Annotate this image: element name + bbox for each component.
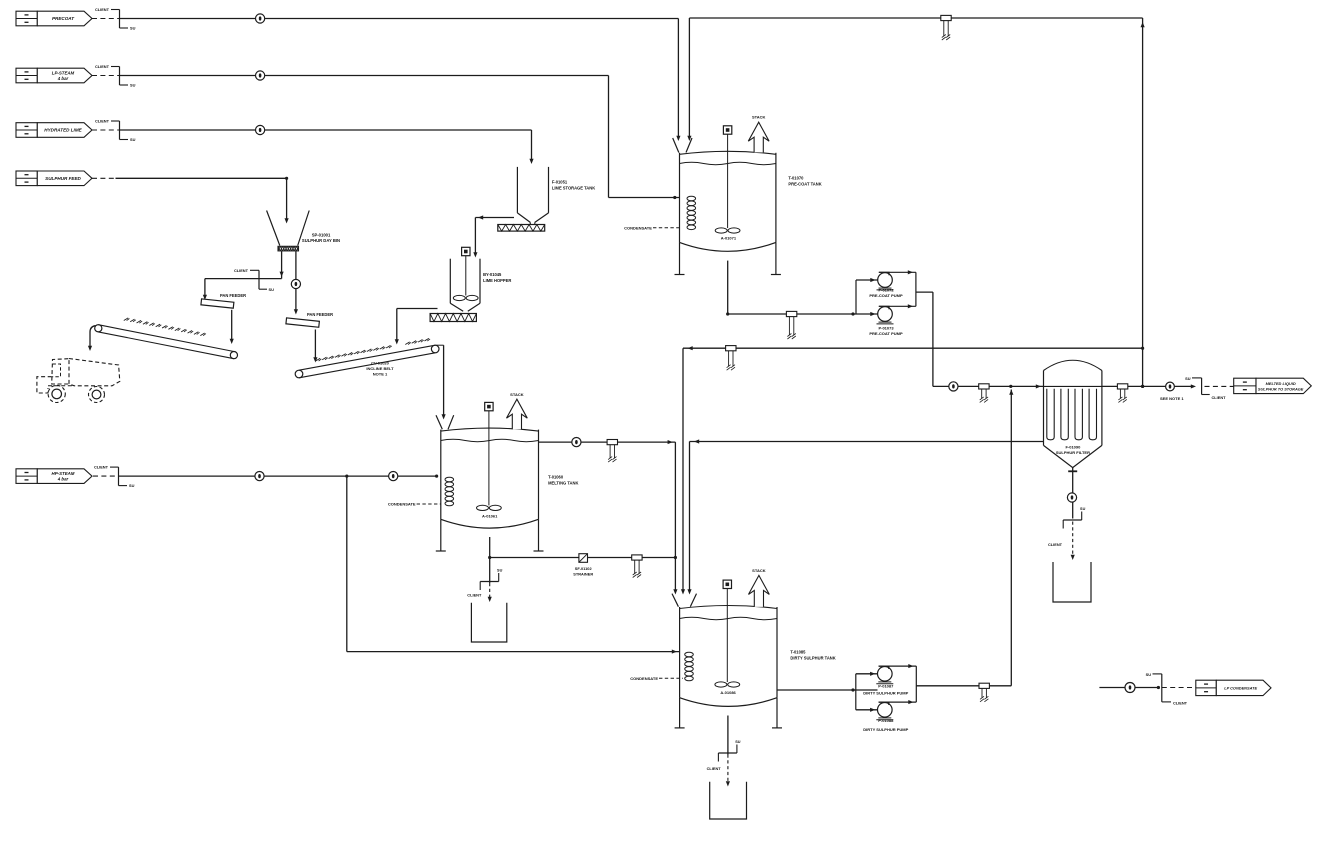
svg-text:SULPHUR TO STORAGE: SULPHUR TO STORAGE [1258,386,1304,391]
svg-text:INCLINE BELT: INCLINE BELT [366,366,394,371]
agitator motor of BY-01045 [462,247,470,295]
svg-text:STACK: STACK [510,392,524,397]
dirty pump suction header [856,672,878,712]
svg-text:LIME HOPPER: LIME HOPPER [483,278,511,283]
svg-text:HYDRATED LIME: HYDRATED LIME [44,128,82,133]
battery limit CLIENT/SU on HP-STEAM line [93,465,135,489]
svg-text:SF-01102: SF-01102 [575,566,593,571]
svg-text:DIRTY SULPHUR PUMP: DIRTY SULPHUR PUMP [863,691,908,696]
hopper BY-01045 LIME HOPPER [450,259,480,312]
valve on HP-steam line 2 [389,472,398,481]
svg-text:CLIENT: CLIENT [95,7,110,12]
battery limit CLIENT/SU on reject line [234,268,274,292]
stack vent of T-01060 [507,392,528,430]
svg-text:BY-01045: BY-01045 [483,272,502,277]
label T-01085 DIRTY SULPHUR TANK [790,650,835,661]
wire sulphur feed line to day bin SP-01001 [92,177,289,224]
label CV-01020 INCLINE BELT NOTE 1 [366,361,394,377]
svg-text:F-01090: F-01090 [1065,445,1081,450]
svg-text:SULPHUR FILTER: SULPHUR FILTER [1056,450,1090,455]
pump P-01088 DIRTY SULPHUR PUMP [863,702,908,732]
svg-text:P-01073: P-01073 [878,326,894,331]
svg-text:CLIENT: CLIENT [95,64,110,69]
pump P-01087 DIRTY SULPHUR PUMP [863,666,908,696]
agitator motor A-01071 [723,126,731,228]
valve on condensate line [1125,683,1135,693]
wire LP-steam line to T-01070 coil [120,76,680,200]
valve on LP-steam line [256,71,265,80]
drain pit of F-01090 [1053,562,1091,602]
svg-text:CONDENSATE: CONDENSATE [624,225,652,230]
wire day bin to pan feeder 1 [203,251,284,300]
svg-text:CLIENT: CLIENT [1212,395,1227,400]
label F-01090 SULPHUR FILTER [1056,445,1090,456]
wire T-01085 outlet to dirty sulphur pumps [777,688,878,691]
agitator propeller of BY-01045 [453,295,478,300]
pump P-01073 PRE-COAT PUMP [869,306,903,336]
svg-text:STACK: STACK [752,568,766,573]
svg-text:CLIENT: CLIENT [467,593,482,598]
stream flag PRECOAT (inlet) [16,11,92,26]
svg-text:4 bar: 4 bar [57,477,69,482]
svg-text:MELTED LIQUID: MELTED LIQUID [1266,381,1296,386]
svg-text:SP-01001: SP-01001 [312,233,331,238]
heating coil of T-01085 [685,652,694,681]
agitator motor A-01086 [723,580,731,682]
svg-text:STACK: STACK [752,115,766,120]
svg-text:SU: SU [497,569,503,573]
svg-text:SULPHUR DAY BIN: SULPHUR DAY BIN [302,238,340,243]
stream flag LP-STEAM 4 bar (inlet) [16,68,92,83]
svg-text:CLIENT: CLIENT [95,119,110,124]
wire HP-steam to T-01085 coil [347,476,680,654]
wire filter outlet to storage flag [1102,384,1196,388]
svg-text:STRAINER: STRAINER [573,571,593,576]
pump P-01072 PRE-COAT PUMP [869,272,903,298]
label T-01060 MELTING TANK [548,475,578,486]
battery limit SU/CLIENT on product line [1185,376,1234,400]
battery limit CLIENT/SU on HYDRATED LIME line [92,119,136,143]
pan feeder 2 [286,312,333,327]
wire recycle line to T-01085 funnel [681,346,1144,594]
hopper F-01051 LIME STORAGE TANK [517,167,548,225]
label T-01070 PRE-COAT TANK [788,176,821,187]
svg-text:SU: SU [735,740,741,744]
wire T-01060 overflow to T-01085 funnel [539,440,678,594]
svg-text:CLIENT: CLIENT [234,268,249,273]
wire conveyor 1 discharge to truck [88,326,96,351]
spool piece on dirty pump discharge [979,683,989,702]
spool piece on filter feed line [979,384,989,403]
svg-text:T-01060: T-01060 [548,475,564,480]
svg-text:4 bar: 4 bar [57,76,69,81]
wire lime doser to incline belt [395,309,438,345]
wire HP-steam line to T-01060 coil [119,475,439,478]
svg-text:A-01071: A-01071 [721,235,737,240]
wire lime feeder to lime hopper BY-01045 [473,215,514,257]
svg-text:PRE-COAT TANK: PRE-COAT TANK [788,181,821,186]
svg-text:SU: SU [1185,376,1191,381]
stack vent of T-01070 [748,115,769,153]
battery limit CLIENT/SU on LP-STEAM line [92,64,136,88]
svg-text:PRE-COAT PUMP: PRE-COAT PUMP [869,293,903,298]
svg-text:DIRTY SULPHUR TANK: DIRTY SULPHUR TANK [790,655,835,660]
drain pit of T-01060 [471,603,506,642]
svg-text:F-01051: F-01051 [552,180,568,185]
agitator propeller A-01061 [477,505,502,518]
battery limit SU/CLIENT on condensate line [1146,672,1196,705]
svg-text:CLIENT: CLIENT [94,465,109,470]
heating coil of T-01070 [687,196,696,229]
wire hydrated lime line to F-01051 [120,130,534,164]
label BY-01045 LIME HOPPER [483,272,511,283]
wire T-01070 outlet to pre-coat pumps [726,261,878,316]
conveyor CV-01010 belt [95,325,238,359]
valve SEE NOTE 1 on product line [1160,382,1184,401]
wire dirty pumps to filter feed junction [916,390,1013,686]
svg-text:SU: SU [269,287,275,292]
conveyor CV-01020 INCLINE BELT [295,345,439,378]
battery limit SU/CLIENT on filter drain [1048,507,1086,560]
spool piece on overflow line [607,440,617,463]
wire pan feeder 2 to incline belt CV-01020 [313,330,317,363]
filter inlet line across F-01090 [1044,385,1102,387]
wire filter drain to pit [1068,468,1077,519]
legs of T-01070 [675,242,781,274]
vessel F-01090 SULPHUR FILTER shell [1044,360,1102,467]
spool piece on recycle line [726,346,736,371]
svg-text:CLIENT: CLIENT [1048,542,1063,547]
svg-text:P-01087: P-01087 [878,684,894,689]
valve on hydrated lime line [256,125,265,134]
stream flag MELTED LIQUID SULPHUR TO STORAGE (outlet) [1234,378,1312,393]
svg-text:HP-STEAM: HP-STEAM [52,471,75,476]
pre-coat pump discharge header [879,270,916,308]
hopper SP-01001 SULPHUR DAY BIN [267,211,310,246]
svg-text:SU: SU [1080,507,1086,511]
battery limit CLIENT/SU on PRECOAT line [92,7,136,31]
material ticks on conveyor CV-01020 [316,338,430,361]
pre-coat pump suction header [851,278,877,316]
vessel T-01060 MELTING TANK [441,428,539,528]
svg-text:CLIENT: CLIENT [1173,700,1188,705]
pan feeder 1 [201,293,246,308]
stream flag SULPHUR FEED (inlet) [16,171,92,186]
svg-text:PAN FEEDER: PAN FEEDER [307,312,333,317]
svg-text:SEE NOTE 1: SEE NOTE 1 [1160,396,1184,401]
vessel T-01070 PRE-COAT TANK [680,151,776,251]
svg-text:SU: SU [130,26,136,31]
vibrating feeder of BY-01045 [430,314,476,322]
svg-text:T-01070: T-01070 [788,176,804,181]
svg-text:LIME STORAGE TANK: LIME STORAGE TANK [552,185,595,190]
wire day bin to pan feeder 2 [294,251,298,314]
wire condensate header to flag [1099,686,1160,689]
label SP-01001 SULPHUR DAY BIN [302,233,340,244]
wire T-01060 drain to pit [467,558,502,603]
label F-01051 LIME STORAGE TANK [552,180,595,191]
valve on day bin outlet [291,279,300,288]
spool piece on filter outlet [1117,384,1127,403]
valve on overflow line [572,438,581,447]
wire T-01060 outlet to strainer line [488,537,677,559]
valve on filter feed line [949,382,958,391]
inlet funnel of T-01070 [673,136,692,153]
strainer SF-01102 [573,554,593,577]
stack vent of T-01085 [749,568,770,607]
legs of T-01085 [675,698,782,728]
vessel T-01085 DIRTY SULPHUR TANK [680,606,777,707]
hatched feeder of SP-01001 [278,246,299,251]
svg-text:PRECOAT: PRECOAT [52,16,75,21]
svg-text:DIRTY SULPHUR PUMP: DIRTY SULPHUR PUMP [863,727,908,732]
svg-text:SU: SU [1146,672,1152,677]
svg-text:PAN FEEDER: PAN FEEDER [220,293,246,298]
material ticks on conveyor CV-01010 [124,318,206,336]
svg-text:SU: SU [130,83,136,88]
condensate line of T-01060 [388,502,441,507]
stream flag HP-STEAM 4 bar (inlet) [16,469,92,484]
inlet funnel of T-01060 [436,415,454,429]
wire incline belt discharge to melting tank [435,345,445,419]
legs of T-01060 [436,519,544,551]
drain pit of T-01085 [710,782,747,819]
svg-text:P-01072: P-01072 [878,287,894,292]
svg-text:CONDENSATE: CONDENSATE [388,502,416,507]
svg-text:LP CONDENSATE: LP CONDENSATE [1224,685,1257,690]
svg-text:LP-STEAM: LP-STEAM [52,70,75,75]
stream flag LP CONDENSATE (outlet) [1196,680,1271,695]
spool piece on strainer line [632,555,642,578]
wire T-01085 drain to pit [707,716,741,787]
condensate line of T-01070 [624,225,679,230]
vibrating feeder of F-01051 [498,225,545,232]
spool piece on pre-coat pump suction [786,311,796,339]
wire pre-coat pumps to filter F-01090 [916,292,1044,388]
inlet funnel of T-01085 [672,594,697,607]
heating coil of T-01060 [445,477,454,506]
agitator motor A-01061 [485,402,493,505]
filter candles of F-01090 [1047,389,1097,440]
wire precoat feed line to tank T-01070 [120,19,681,142]
svg-text:CONDENSATE: CONDENSATE [630,676,658,681]
dirty pump discharge header [879,664,917,704]
valve on HP-steam line 1 [255,472,264,481]
svg-text:SU: SU [130,137,136,142]
agitator propeller A-01086 [715,682,740,695]
truck (dashed outline) [37,359,120,403]
svg-text:T-01085: T-01085 [790,650,806,655]
svg-text:MELTING TANK: MELTING TANK [548,480,578,485]
svg-text:A-01061: A-01061 [482,513,498,518]
svg-text:PRE-COAT PUMP: PRE-COAT PUMP [869,331,903,336]
spool piece on recycle top line [941,15,951,40]
agitator propeller A-01071 [715,228,740,240]
stream flag HYDRATED LIME (inlet) [16,123,92,138]
valve on precoat feed line [256,14,265,23]
valve on filter drain [1067,493,1076,502]
svg-text:CLIENT: CLIENT [707,766,722,771]
svg-text:P-01088: P-01088 [878,718,894,723]
svg-text:NOTE 1: NOTE 1 [373,372,388,377]
wire recycle riser to T-01070 funnel [689,18,1144,388]
wire filter return to T-01085 funnel [687,439,1043,594]
condensate line of T-01085 [630,676,683,681]
svg-text:SU: SU [129,483,135,488]
svg-text:SULPHUR FEED: SULPHUR FEED [45,176,81,181]
svg-text:CV-01020: CV-01020 [371,361,390,366]
svg-text:A-01086: A-01086 [720,690,736,695]
wire pan feeder 1 to conveyor CV-01010 [230,310,234,344]
junction of dirty-pump line with filter feed [1009,385,1012,388]
